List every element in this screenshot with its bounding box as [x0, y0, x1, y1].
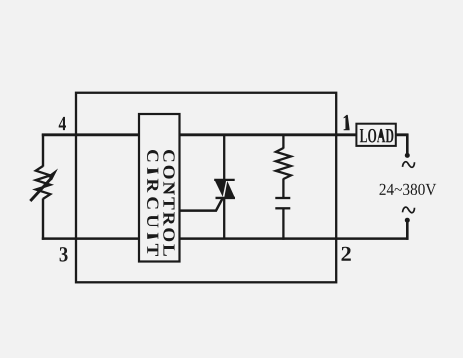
node: lower AC terminal dot — [405, 218, 410, 223]
node: upper AC terminal dot — [405, 153, 410, 158]
capacitor C1 top plate — [275, 197, 290, 199]
varistor RV1 arrow — [30, 179, 51, 202]
node 1 label — [344, 115, 350, 130]
upper tilde (AC) — [403, 162, 415, 168]
capacitor C1 bottom plate — [275, 207, 290, 209]
wire: AC source right vertical upper — [406, 134, 409, 156]
wire: resistor to capacitor stub — [282, 179, 284, 198]
triac Q1 bottom bar MT1 — [216, 197, 236, 199]
lower tilde (AC) — [403, 207, 415, 213]
wire: gate from control circuit to triac — [180, 197, 224, 210]
control circuit box U1 — [139, 114, 180, 262]
triac Q1 top bar MT2 — [214, 179, 235, 181]
wire: capacitor to bottom wire stub — [282, 209, 284, 240]
resistor R1 branch stub top — [282, 134, 284, 149]
outer box (SSR body) — [76, 93, 336, 283]
wire: main top wire node 4 to right — [42, 133, 409, 136]
varistor RV1 zigzag — [36, 166, 51, 199]
triac Q1 left triangle (filled, pointing down) — [215, 180, 227, 197]
wire: AC source right vertical lower — [406, 220, 409, 240]
node 3 label — [60, 247, 68, 262]
control circuit label CONTROL — [163, 150, 174, 256]
resistor R1 zigzag — [276, 148, 291, 179]
triac Q1 right triangle (filled, pointing up) — [224, 181, 234, 197]
triac Q1 vertical wire lower — [223, 198, 225, 239]
LOAD box — [356, 124, 395, 146]
LOAD label — [360, 129, 394, 143]
control circuit label CIRCUIT — [147, 150, 158, 256]
voltage label 24~380V — [380, 184, 437, 195]
wire: bottom wire node 3 to node 2 — [42, 237, 409, 240]
wire: left branch vertical (varistor branch) — [42, 134, 44, 167]
node 4 label — [59, 117, 66, 130]
triac Q1 vertical wire upper — [223, 135, 225, 181]
node 2 label — [342, 247, 351, 261]
